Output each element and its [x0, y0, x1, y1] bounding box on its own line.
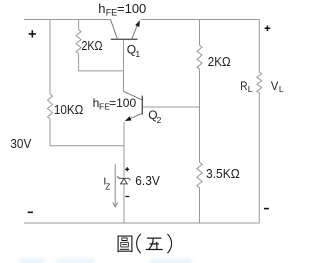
- plus terminal left: [28, 26, 271, 213]
- svg-text:FE: FE: [106, 7, 118, 17]
- resistor RL: [257, 72, 262, 93]
- wire top rail left: [24, 19, 111, 21]
- minus terminal right: [264, 208, 269, 210]
- wire horizontal to zener branch: [50, 145, 124, 147]
- svg-text:L: L: [248, 84, 253, 94]
- faint blue artifact bottom: [20, 259, 44, 263]
- svg-text:h: h: [98, 1, 105, 16]
- caption 圖(五): [118, 234, 172, 253]
- svg-text:R: R: [240, 79, 247, 93]
- svg-text:=100: =100: [117, 1, 146, 16]
- svg-text:2KΩ: 2KΩ: [208, 55, 231, 69]
- wire left vertical from top rail: [49, 20, 51, 95]
- wire divider middle: [199, 69, 201, 162]
- wire bottom rail: [24, 222, 259, 224]
- svg-text:1: 1: [135, 49, 140, 59]
- svg-text:L: L: [279, 84, 284, 94]
- wire right vertical bottom: [258, 93, 260, 223]
- resistor 10KΩ: [48, 94, 53, 119]
- resistor 2KΩ right: [197, 45, 202, 69]
- svg-text:V: V: [271, 79, 278, 93]
- wire 2K-left branch top: [78, 20, 80, 30]
- wire right vertical top: [258, 20, 260, 73]
- svg-text:10KΩ: 10KΩ: [54, 103, 83, 117]
- svg-text:2KΩ: 2KΩ: [82, 39, 103, 53]
- svg-text:6.3V: 6.3V: [135, 173, 160, 188]
- svg-text:30V: 30V: [10, 137, 32, 151]
- wire 2K-left bottom to Q1 base: [79, 54, 124, 71]
- wire right divider branch top: [199, 20, 201, 46]
- current arrow IZ: [113, 164, 118, 207]
- transistor Q2: [124, 91, 143, 119]
- zener diode 6.3V: [117, 177, 130, 184]
- wire divider bottom: [199, 188, 201, 223]
- transistor Q1: [111, 20, 139, 40]
- svg-text:=100: =100: [109, 96, 136, 110]
- plus terminal right: [265, 26, 271, 32]
- wire Q1 base vertical: [123, 40, 125, 92]
- wire top rail right: [141, 19, 260, 21]
- resistor 2KΩ left: [76, 30, 81, 54]
- zener minus: [126, 196, 130, 198]
- wire zener branch vertical: [123, 122, 125, 223]
- wire left vertical below 10K: [49, 119, 51, 146]
- zener plus: [125, 167, 129, 171]
- resistor 3.5KΩ: [197, 162, 202, 188]
- svg-text:3.5KΩ: 3.5KΩ: [206, 167, 240, 181]
- minus terminal left: [28, 211, 33, 213]
- svg-text:2: 2: [157, 115, 162, 125]
- wire Q2 base to divider: [143, 106, 200, 108]
- svg-text:Z: Z: [105, 182, 110, 191]
